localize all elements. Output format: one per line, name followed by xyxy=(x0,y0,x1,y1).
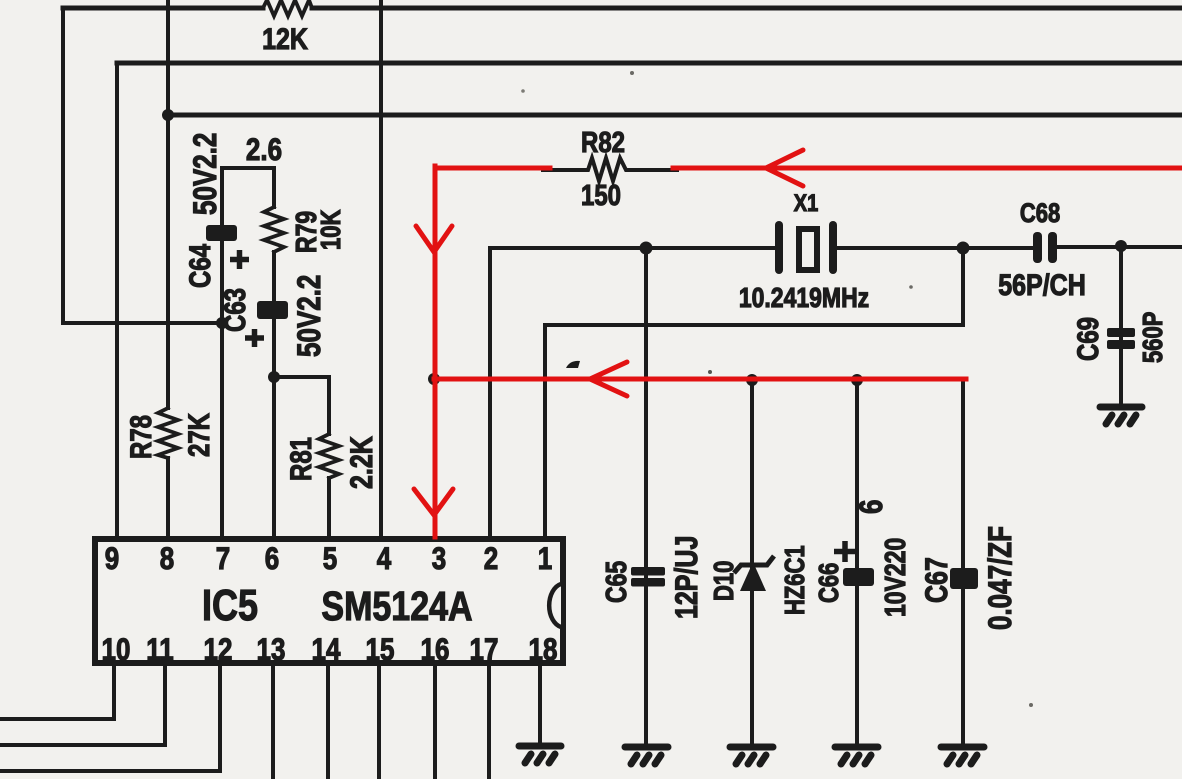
ground C67 xyxy=(941,747,984,764)
wire pin 10 exit xyxy=(0,665,114,719)
capacitor C63 body xyxy=(257,301,288,319)
wire pin 3 vertical under red xyxy=(433,379,437,539)
wire top bus 3 xyxy=(168,113,1182,118)
capacitor C69 body xyxy=(1107,328,1135,337)
svg-text:50V2.2: 50V2.2 xyxy=(187,133,223,215)
wire pin 17 down xyxy=(487,665,491,779)
speck xyxy=(708,370,712,374)
wire crystal right to C68 xyxy=(837,246,1034,250)
svg-text:3: 3 xyxy=(432,542,446,577)
ground C65 xyxy=(625,747,668,764)
svg-text:12P/UJ: 12P/UJ xyxy=(668,536,703,619)
ground C66 xyxy=(835,747,878,764)
wire horizontal into node at pin7 column xyxy=(63,321,222,325)
svg-text:10.2419MHz: 10.2419MHz xyxy=(739,283,869,313)
junction node pin3 net xyxy=(428,373,440,385)
wire pin 6 vertical upper xyxy=(272,168,276,207)
junction node C66 top xyxy=(851,374,863,386)
svg-text:X1: X1 xyxy=(794,189,818,216)
svg-text:16: 16 xyxy=(421,633,450,668)
svg-text:IC5: IC5 xyxy=(202,582,258,630)
junction node C68 right xyxy=(1115,240,1127,252)
red arrow on lower path xyxy=(590,362,627,396)
svg-text:12: 12 xyxy=(204,633,233,668)
svg-text:8: 8 xyxy=(160,542,174,577)
svg-text:2.2K: 2.2K xyxy=(343,436,378,489)
ground pin18 xyxy=(519,746,561,763)
wire C69 branch xyxy=(1119,246,1123,405)
wire pin 4 vertical xyxy=(379,0,383,539)
svg-text:6: 6 xyxy=(853,500,889,514)
wire pin 7 vertical xyxy=(220,168,224,539)
wire C65 branch xyxy=(644,248,648,744)
svg-text:17: 17 xyxy=(470,633,499,668)
svg-text:560P: 560P xyxy=(1138,312,1169,363)
svg-text:HZ6C1: HZ6C1 xyxy=(780,545,811,615)
junction node crystal right xyxy=(957,242,970,255)
wire lower crystal net xyxy=(545,323,963,327)
svg-text:15: 15 xyxy=(366,633,395,668)
wire top bus 2 xyxy=(117,61,1182,66)
capacitor C67 body xyxy=(950,568,978,589)
wire 2.6 bracket xyxy=(222,166,274,170)
diode D10 zener bar xyxy=(734,556,774,573)
wire C68 right to edge xyxy=(1057,245,1182,249)
svg-text:C67: C67 xyxy=(918,557,953,603)
junction node pin7 xyxy=(216,317,228,329)
svg-text:6: 6 xyxy=(265,542,279,577)
wire pin 16 down xyxy=(433,665,437,779)
wire stub node to R81 xyxy=(274,375,329,379)
red path horizontal top left segment xyxy=(435,166,550,171)
svg-text:10: 10 xyxy=(102,633,131,668)
wire pin 5 vertical upper xyxy=(327,377,331,434)
wire D10 branch xyxy=(750,380,754,744)
svg-text:27K: 27K xyxy=(181,413,215,457)
wire pin 9 vertical xyxy=(115,63,119,539)
wire pin 11 exit xyxy=(0,665,165,745)
svg-text:C68: C68 xyxy=(1020,199,1060,228)
wire pin 18 down xyxy=(538,665,542,743)
junction node D10 top xyxy=(746,374,758,386)
red arrow on top path xyxy=(766,150,803,186)
wire crystal top net xyxy=(490,246,776,250)
svg-text:R82: R82 xyxy=(581,126,625,159)
resistor R78 xyxy=(158,408,178,458)
svg-text:12K: 12K xyxy=(262,22,308,56)
svg-text:5: 5 xyxy=(323,542,337,577)
svg-text:10K: 10K xyxy=(316,210,347,250)
speck xyxy=(521,89,525,93)
svg-text:R81: R81 xyxy=(283,437,317,481)
svg-text:2: 2 xyxy=(484,542,498,577)
svg-text:14: 14 xyxy=(312,633,341,668)
svg-text:56P/CH: 56P/CH xyxy=(998,268,1086,302)
IC5 notch xyxy=(549,584,561,627)
stray mark xyxy=(566,361,580,368)
wire left vertical from bus1 xyxy=(61,8,65,323)
wire pin 12 exit xyxy=(0,665,220,771)
svg-text:C63: C63 xyxy=(217,288,251,332)
speck xyxy=(909,285,913,289)
svg-text:4: 4 xyxy=(377,542,391,577)
wire pin 8 vertical upper xyxy=(166,0,170,408)
red path horizontal top right segment xyxy=(673,166,1182,171)
svg-text:R78: R78 xyxy=(123,415,157,459)
capacitor C68 plates xyxy=(1033,232,1042,263)
svg-text:7: 7 xyxy=(216,542,230,577)
svg-text:9: 9 xyxy=(105,542,119,577)
svg-text:150: 150 xyxy=(581,179,621,212)
ground C69 xyxy=(1100,407,1142,424)
speck xyxy=(174,576,178,580)
resistor R82 xyxy=(541,158,679,181)
svg-text:2.6: 2.6 xyxy=(246,133,282,168)
junction node pin6 xyxy=(268,371,280,383)
wire black under red net xyxy=(434,377,963,381)
capacitor C64 body xyxy=(206,225,237,241)
svg-text:1: 1 xyxy=(538,542,552,577)
svg-text:50V2.2: 50V2.2 xyxy=(291,275,327,357)
red vertical path pin3 xyxy=(433,166,438,537)
svg-text:D10: D10 xyxy=(709,561,740,601)
wire pin 15 down xyxy=(377,665,381,779)
crystal X1 body xyxy=(799,229,817,270)
ground D10 xyxy=(730,747,773,764)
resistor R81 xyxy=(319,434,339,478)
junction node C65 top xyxy=(640,242,653,255)
red chevron upper xyxy=(416,226,452,252)
svg-text:0.047/ZF: 0.047/ZF xyxy=(982,526,1018,630)
speck xyxy=(630,71,634,75)
capacitor C65 body xyxy=(631,567,665,576)
svg-text:11: 11 xyxy=(146,633,174,668)
capacitor C64 plus xyxy=(230,250,249,269)
wire pin 13 down xyxy=(271,665,275,779)
wire pin 14 down xyxy=(326,665,330,779)
junction dot bus3 pin8 xyxy=(162,109,174,121)
svg-text:C65: C65 xyxy=(599,561,632,603)
wire pin 6 vertical lower xyxy=(272,252,276,539)
capacitor C66 body xyxy=(843,568,874,586)
wire pin 2 vertical xyxy=(488,248,492,539)
speck xyxy=(1029,703,1033,707)
resistor 12K xyxy=(263,0,312,16)
diode D10 triangle xyxy=(740,562,766,591)
crystal X1 right plate xyxy=(829,221,837,274)
wire pin 5 vertical lower xyxy=(327,478,331,539)
wire right drop from crystal net xyxy=(961,248,965,325)
wire top bus 1 left segment xyxy=(63,6,263,11)
red horizontal lower path xyxy=(434,377,966,382)
capacitor C66 plus xyxy=(834,541,856,562)
wire pin 1 vertical xyxy=(543,325,547,539)
wire C67 branch xyxy=(961,380,965,744)
svg-text:C64: C64 xyxy=(182,244,216,288)
red chevron lower xyxy=(414,489,453,515)
svg-text:C66: C66 xyxy=(814,563,845,603)
crystal X1 left plate xyxy=(775,221,783,274)
wire C66 branch xyxy=(855,380,859,744)
svg-text:C69: C69 xyxy=(1070,317,1104,361)
svg-text:SM5124A: SM5124A xyxy=(321,583,472,629)
capacitor C63 plus xyxy=(245,329,264,347)
svg-text:18: 18 xyxy=(529,633,558,668)
svg-text:10V220: 10V220 xyxy=(878,538,911,617)
wire top bus 1 right segment xyxy=(312,6,1182,11)
IC5 body xyxy=(95,539,563,663)
svg-text:13: 13 xyxy=(257,633,286,668)
wire pin 8 vertical lower xyxy=(166,458,170,539)
resistor R79 xyxy=(264,207,284,252)
